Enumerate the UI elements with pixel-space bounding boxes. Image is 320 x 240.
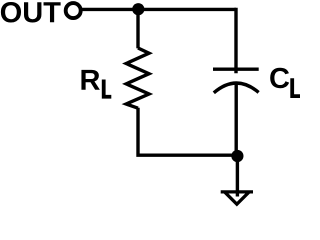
label R xyxy=(81,70,99,90)
capacitor CL bottom plate (arc) xyxy=(214,83,259,93)
node OUT label xyxy=(1,2,61,23)
junction dot top xyxy=(132,3,144,15)
wire ground lead xyxy=(236,156,239,197)
label R subscript L xyxy=(102,80,112,99)
wire capacitor bottom lead xyxy=(234,84,237,155)
wire resistor top lead xyxy=(136,7,139,48)
junction dot bottom xyxy=(231,150,243,162)
wire top (terminal to corner) xyxy=(81,8,236,11)
label C xyxy=(270,68,289,89)
wire resistor bottom lead and bottom wire xyxy=(138,108,237,155)
wire capacitor top lead (corner from top wire down through plate) xyxy=(234,8,237,74)
ground symbol (open triangle) xyxy=(221,190,253,206)
terminal OUT (open circle) xyxy=(66,3,81,18)
resistor RL zigzag xyxy=(126,48,149,108)
capacitor CL top plate xyxy=(213,67,259,70)
label C subscript L xyxy=(290,78,302,98)
